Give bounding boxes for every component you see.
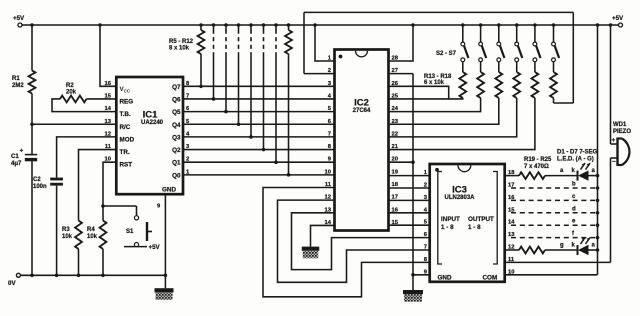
svg-text:13: 13 (105, 119, 112, 125)
svg-text:7: 7 (424, 245, 427, 251)
svg-text:20k: 20k (66, 90, 77, 96)
svg-text:+: + (20, 148, 24, 155)
svg-text:COM: COM (483, 274, 498, 281)
svg-text:R3: R3 (62, 227, 70, 233)
svg-text:GND: GND (162, 187, 176, 194)
svg-text:10k: 10k (62, 234, 73, 240)
svg-text:1 - 8: 1 - 8 (468, 224, 481, 231)
svg-text:+5V: +5V (612, 15, 624, 22)
svg-text:INPUT: INPUT (441, 216, 460, 223)
svg-text:R/C: R/C (120, 124, 131, 131)
svg-text:16: 16 (105, 81, 112, 87)
svg-text:15: 15 (105, 93, 112, 99)
svg-text:S2 - S7: S2 - S7 (436, 51, 457, 57)
svg-text:10: 10 (325, 169, 331, 175)
svg-text:ULN2803A: ULN2803A (444, 195, 475, 201)
svg-text:4μ7: 4μ7 (11, 161, 22, 167)
svg-text:IC2: IC2 (354, 98, 369, 109)
svg-text:18: 18 (392, 182, 399, 188)
svg-text:IC3: IC3 (452, 185, 467, 196)
svg-text:+: + (612, 137, 616, 144)
svg-text:2: 2 (424, 183, 427, 189)
svg-text:+5V: +5V (149, 244, 161, 251)
svg-text:11: 11 (105, 144, 112, 150)
svg-text:TR.: TR. (120, 149, 130, 156)
svg-text:−: − (612, 159, 616, 166)
svg-text:C2: C2 (33, 177, 41, 183)
svg-text:7 x 470Ω: 7 x 470Ω (524, 164, 549, 170)
svg-text:+5V: +5V (13, 15, 25, 22)
svg-text:10: 10 (105, 157, 111, 163)
svg-text:Q7: Q7 (172, 84, 181, 91)
svg-text:Q4: Q4 (172, 122, 181, 129)
svg-text:1 - 8: 1 - 8 (441, 224, 454, 231)
svg-text:12: 12 (105, 131, 111, 137)
svg-text:Q5: Q5 (172, 109, 181, 116)
svg-text:R2: R2 (66, 83, 74, 89)
svg-text:10k: 10k (87, 234, 98, 240)
svg-text:8 x 10k: 8 x 10k (169, 45, 190, 51)
svg-text:WD1: WD1 (613, 122, 627, 128)
svg-text:0V: 0V (8, 280, 16, 287)
svg-text:g: g (560, 243, 564, 249)
svg-text:T.B.: T.B. (120, 111, 131, 118)
svg-text:OUTPUT: OUTPUT (468, 216, 494, 223)
svg-text:b: b (572, 182, 576, 188)
svg-text:7: 7 (328, 131, 331, 137)
svg-text:Q3: Q3 (172, 134, 181, 141)
svg-text:Q0: Q0 (172, 172, 181, 179)
svg-text:14: 14 (105, 106, 112, 112)
svg-text:MOD: MOD (120, 136, 135, 143)
svg-text:R4: R4 (87, 227, 95, 233)
svg-text:19: 19 (392, 169, 399, 175)
svg-text:27C64: 27C64 (353, 108, 371, 114)
svg-text:Q2: Q2 (172, 147, 181, 154)
svg-text:Q6: Q6 (172, 96, 181, 103)
svg-text:6 x 10k: 6 x 10k (424, 80, 445, 86)
svg-text:REG: REG (120, 98, 134, 105)
svg-text:GND: GND (438, 274, 452, 281)
svg-text:UA2240: UA2240 (141, 120, 164, 126)
svg-text:L.E.D. (A - G): L.E.D. (A - G) (557, 157, 594, 163)
svg-text:2M2: 2M2 (12, 83, 24, 89)
svg-text:IC1: IC1 (143, 110, 159, 121)
svg-text:d: d (572, 206, 576, 212)
svg-text:RST: RST (120, 162, 133, 169)
svg-text:R5 - R12: R5 - R12 (169, 39, 194, 45)
svg-text:R1: R1 (12, 76, 20, 82)
svg-text:PIEZO: PIEZO (613, 129, 631, 135)
svg-text:C1: C1 (11, 154, 19, 160)
svg-text:S1: S1 (126, 229, 134, 235)
svg-text:100n: 100n (33, 184, 47, 190)
svg-text:Q1: Q1 (172, 160, 181, 167)
svg-text:R19 - R25: R19 - R25 (524, 157, 552, 163)
svg-text:D1 - D7 7-SEG: D1 - D7 7-SEG (557, 150, 598, 156)
